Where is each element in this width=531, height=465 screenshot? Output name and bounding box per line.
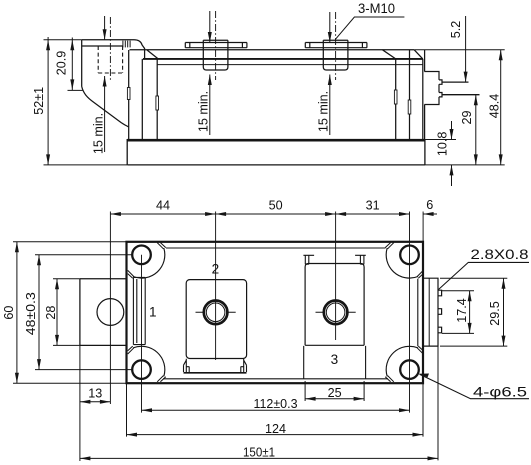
svg-text:5.2: 5.2	[449, 21, 463, 39]
dimension 20.9	[68, 38, 83, 91]
stud hole 2 (plan)	[196, 301, 236, 325]
plan outer outline	[127, 242, 424, 383]
svg-text:20.9: 20.9	[55, 51, 69, 76]
svg-text:15 min.: 15 min.	[317, 91, 331, 132]
lid lower ledge line	[157, 64, 423, 66]
pad 2 foot left	[184, 359, 190, 372]
svg-text:29.5: 29.5	[488, 301, 502, 326]
plan inner right line	[417, 279, 419, 347]
right body outer edge	[424, 50, 426, 140]
svg-text:60: 60	[2, 306, 16, 320]
dimension 60	[13, 242, 127, 383]
lid bold edge line	[143, 58, 423, 60]
dimension 50	[216, 212, 336, 216]
svg-text:52±1: 52±1	[32, 87, 46, 115]
pad 2 pocket base line	[184, 372, 247, 374]
pad 3 clip right	[355, 255, 366, 264]
mold mark left lid	[156, 96, 159, 110]
svg-text:124: 124	[265, 422, 286, 436]
centerline stud 3	[335, 12, 337, 80]
terminal pad 2 (side view)	[185, 43, 247, 48]
top surface line	[130, 49, 415, 51]
svg-text:10.8: 10.8	[436, 132, 450, 157]
svg-text:44: 44	[156, 198, 170, 212]
svg-text:17.4: 17.4	[455, 298, 469, 323]
svg-text:48.4: 48.4	[488, 94, 502, 119]
left body edge	[128, 50, 130, 140]
svg-text:15 min.: 15 min.	[91, 113, 105, 154]
tab bend lines	[123, 41, 130, 48]
svg-text:29: 29	[460, 110, 474, 124]
terminal 1 hole	[97, 299, 124, 326]
gate connector block (side view)	[424, 72, 442, 105]
svg-text:112±0.3: 112±0.3	[254, 397, 298, 411]
mold mark right lid	[394, 90, 397, 104]
svg-text:28: 28	[44, 306, 58, 320]
dimension 52±1	[44, 37, 128, 165]
svg-text:2.8X0.8: 2.8X0.8	[471, 247, 529, 263]
pad 3 clip left	[303, 255, 314, 264]
wire: plan right edge extension up	[422, 212, 424, 242]
dimension 48±0.3	[35, 255, 132, 370]
mounting flange top-right	[385, 243, 423, 279]
pad 2 (plan)	[186, 280, 246, 359]
svg-text:4-φ6.5: 4-φ6.5	[473, 384, 527, 400]
plan inner bottom line	[163, 378, 388, 380]
control connector block (plan)	[423, 278, 442, 346]
wire: tab hole centerline (plan)	[109, 212, 111, 405]
dimension 150±1	[80, 346, 438, 460]
dimension 6	[423, 212, 437, 216]
terminal 1 bent tab (side view)	[82, 40, 145, 127]
svg-text:31: 31	[366, 198, 380, 212]
dimension 10.8	[425, 121, 457, 186]
dimension 15 min. stud 1	[103, 16, 107, 152]
svg-text:48±0.3: 48±0.3	[24, 292, 38, 335]
dimension 15 min. stud 2	[208, 11, 212, 135]
dimension 28	[53, 279, 80, 346]
dimension 13	[80, 345, 111, 461]
mounting flange bottom-left	[128, 346, 166, 382]
wire: left holes centerline	[141, 255, 143, 413]
left lid chamfer	[147, 50, 158, 59]
wire: right holes centerline	[409, 212, 411, 413]
terminal pad 3 (side view)	[305, 43, 367, 48]
dimension 29.5	[440, 278, 507, 346]
body outline (side view)	[127, 50, 424, 140]
stud hole 3 (plan)	[316, 301, 356, 325]
right lid chamfer 1	[383, 50, 396, 59]
wire: stud 3 centerline (plan)	[335, 212, 337, 341]
dimension 25	[305, 381, 364, 401]
hidden stud bush 1 (dashed)	[98, 46, 122, 73]
centerline stud 2	[215, 11, 217, 80]
mold mark left edge	[127, 88, 130, 100]
right lid verticals	[396, 50, 410, 140]
svg-text:3: 3	[331, 352, 339, 367]
dimension 112±0.3	[142, 408, 410, 412]
terminal 1 pocket slot	[133, 277, 145, 344]
mounting flange bottom-right	[385, 346, 423, 382]
svg-text:1: 1	[149, 305, 157, 320]
stud bush 2 (side view)	[203, 40, 228, 70]
pad 3 (plan)	[305, 264, 364, 346]
dimension 31	[336, 212, 410, 216]
left lid verticals	[142, 59, 157, 140]
pad 3 pocket sides	[304, 346, 366, 379]
svg-text:15 min.: 15 min.	[197, 91, 211, 132]
terminal 1 tab (plan)	[80, 279, 127, 346]
dimension 17.4	[442, 291, 474, 334]
svg-text:6: 6	[426, 198, 433, 212]
dimension 44	[110, 212, 215, 216]
right body edge	[422, 59, 424, 140]
pad 2 foot right	[241, 359, 247, 372]
wire: stud 2 centerline (plan)	[215, 212, 217, 361]
base plate (side view)	[127, 139, 425, 165]
stud bush 3 (side view)	[323, 40, 348, 70]
centerline stud 1	[109, 17, 111, 80]
svg-text:3-M10: 3-M10	[358, 0, 395, 16]
gate pin upper (side view)	[442, 81, 469, 83]
dimension 124	[127, 383, 424, 436]
svg-text:150±1: 150±1	[243, 445, 275, 459]
svg-text:50: 50	[269, 198, 283, 212]
gate pin lower (side view)	[442, 94, 480, 96]
mold mark right inner	[408, 100, 411, 114]
dimension 15 min. stud 3	[328, 12, 332, 135]
plan inner top line	[166, 247, 386, 249]
dimension 48.4	[414, 50, 505, 165]
mounting flange top-left	[128, 243, 166, 279]
svg-text:25: 25	[328, 386, 342, 400]
right lid chamfer 2	[414, 50, 423, 59]
tab bend curve	[82, 87, 129, 127]
dimension 5.2	[464, 16, 468, 82]
svg-text:13: 13	[88, 387, 102, 401]
dimension 29	[474, 95, 478, 165]
